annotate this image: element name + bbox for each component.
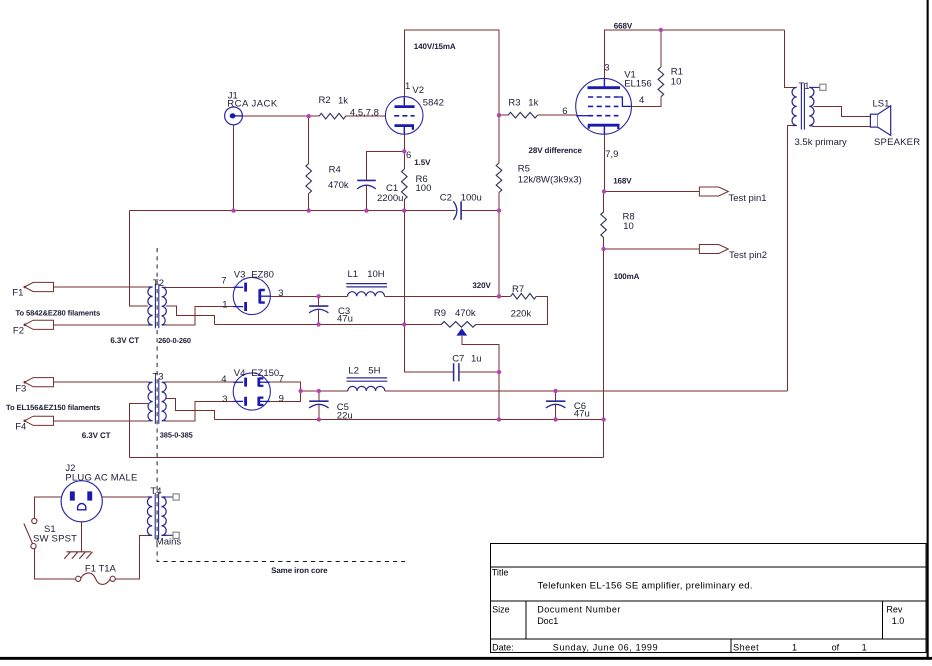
wire R7 leads and right drop xyxy=(476,296,548,324)
node R9 left xyxy=(402,322,406,326)
connector J2 plug AC male xyxy=(61,481,102,522)
wire F3 to T3 xyxy=(54,381,149,383)
wire C1 bottom lead xyxy=(366,185,368,211)
svg-text:To EL156&EZ150 filaments: To EL156&EZ150 filaments xyxy=(6,403,100,412)
svg-text:EZ150: EZ150 xyxy=(251,368,279,379)
svg-text:F1: F1 xyxy=(12,288,23,299)
transformer T3 primary 6.3V CT winding xyxy=(148,382,153,421)
svg-text:4,5,7,8: 4,5,7,8 xyxy=(350,108,379,119)
transformer T1 output primary winding xyxy=(792,87,797,125)
svg-text:385-0-385: 385-0-385 xyxy=(160,430,193,439)
wire J2 right to T4 primary top xyxy=(102,496,148,498)
tube V1 EL156 pentode xyxy=(576,78,632,134)
wire audio ground rail y=324.4 xyxy=(215,323,405,325)
node bus C1 xyxy=(364,208,368,212)
node R5/R7/L1 xyxy=(497,294,501,298)
wire F1 to T2 xyxy=(54,286,149,288)
svg-text:1k: 1k xyxy=(528,98,538,109)
wire T3 left CT to lower left vertical xyxy=(130,403,148,457)
svg-text:4: 4 xyxy=(639,95,644,106)
connector Test pin2 xyxy=(699,245,728,254)
wire C7 right lead to junction xyxy=(459,371,499,373)
svg-text:10: 10 xyxy=(623,221,634,232)
wire left vertical bus to T2 CT xyxy=(130,211,148,306)
page border bottom xyxy=(0,657,932,660)
resistor R2 1k xyxy=(319,113,346,119)
wire R6 leads xyxy=(403,151,405,210)
wire 668V rail xyxy=(605,30,785,78)
transformer T3 core xyxy=(155,379,158,424)
TRANSFORMERS xyxy=(147,83,820,539)
JUNCTION-DOTS xyxy=(231,28,663,422)
resistor R4 470k xyxy=(306,164,312,194)
wire T1 secondary tap to speaker top xyxy=(814,107,871,117)
node bus R6 xyxy=(402,208,406,212)
svg-text:9: 9 xyxy=(279,393,284,404)
svg-text:1: 1 xyxy=(405,81,410,92)
svg-text:1.0: 1.0 xyxy=(892,616,905,626)
node R3/R5/140V xyxy=(497,113,501,117)
svg-text:L1: L1 xyxy=(348,269,359,280)
wire F4 to T3 xyxy=(54,420,149,422)
capacitor C1 2200u xyxy=(357,180,376,189)
node C5 top xyxy=(317,389,321,393)
tube V4 EZ150 rectifier xyxy=(233,373,270,410)
svg-text:Mains: Mains xyxy=(156,536,182,547)
svg-text:320V: 320V xyxy=(472,281,491,290)
wire R3 leads xyxy=(499,114,576,116)
svg-text:F1 T1A: F1 T1A xyxy=(85,563,117,574)
wire S1 to fuse xyxy=(34,549,75,579)
svg-text:LS1: LS1 xyxy=(873,99,890,110)
svg-text:1: 1 xyxy=(792,643,797,653)
svg-text:Sunday, June 06, 1999: Sunday, June 06, 1999 xyxy=(553,643,659,653)
svg-text:Size: Size xyxy=(492,604,510,614)
node V4 rectifier output xyxy=(299,389,303,393)
resistor R1 10 xyxy=(658,67,664,97)
connector F1 xyxy=(24,282,54,291)
transformer T4 core xyxy=(155,493,158,539)
svg-text:470k: 470k xyxy=(328,180,349,191)
wire ground bus y=210.6 xyxy=(130,210,499,212)
connector F2 xyxy=(24,320,54,329)
svg-text:7,9: 7,9 xyxy=(605,149,618,160)
svg-text:7: 7 xyxy=(279,374,284,385)
node J1/R2/R4 xyxy=(307,114,311,118)
svg-text:Doc1: Doc1 xyxy=(537,616,558,626)
wire R4 leads xyxy=(308,116,310,210)
node 668V/R1 xyxy=(659,28,663,32)
svg-text:R2: R2 xyxy=(319,95,331,106)
transformer T4 secondary stubs xyxy=(165,497,173,535)
wire R6 bus to R9 node vertical xyxy=(403,211,405,325)
svg-text:R5: R5 xyxy=(518,164,530,175)
RESISTORS (navy zigzags) xyxy=(306,67,664,327)
transformer T3 secondary 385-0-385 winding xyxy=(162,382,167,421)
fuse F1 xyxy=(76,573,116,585)
svg-text:T4: T4 xyxy=(150,486,161,497)
svg-text:22u: 22u xyxy=(337,411,353,422)
svg-text:F4: F4 xyxy=(15,422,26,433)
svg-text:T3: T3 xyxy=(153,371,164,382)
transformer T4 mains primary winding xyxy=(147,497,152,535)
wire B+ rail y=391 xyxy=(301,390,788,392)
svg-text:100u: 100u xyxy=(461,193,482,204)
node C7 line bottom xyxy=(497,417,501,421)
svg-text:1.5V: 1.5V xyxy=(414,158,431,167)
inductor L2 5H xyxy=(347,378,388,391)
transformer T2 core xyxy=(155,284,158,329)
wire F2 to T2 xyxy=(54,324,149,326)
svg-text:10: 10 xyxy=(671,77,682,88)
svg-text:T2: T2 xyxy=(153,278,164,289)
wire T1 primary bottom down to 391 rail xyxy=(787,126,796,392)
node bus J1 xyxy=(231,208,235,212)
iron core dashed link xyxy=(157,248,405,562)
node C7 right xyxy=(497,370,501,374)
svg-text:F3: F3 xyxy=(15,384,26,395)
node test pin2 xyxy=(601,247,605,251)
wire J2 left to S1 xyxy=(34,497,61,519)
wire J1 down to ground bus xyxy=(233,125,235,211)
LABELS mono bitmap-font annotations xyxy=(6,21,640,575)
resistor R8 10 xyxy=(601,212,607,238)
resistor R5 12k/8W xyxy=(496,163,502,193)
svg-text:R4: R4 xyxy=(329,164,341,175)
svg-text:140V/15mA: 140V/15mA xyxy=(414,42,456,51)
capacitor C7 1u xyxy=(454,363,459,381)
svg-text:R9: R9 xyxy=(434,308,446,319)
unconnected pin square T4 bottom xyxy=(173,532,179,538)
svg-text:Title: Title xyxy=(492,568,509,578)
svg-text:C7: C7 xyxy=(452,354,464,365)
wire heater return rail y=457.4 xyxy=(130,456,604,458)
svg-text:47u: 47u xyxy=(574,409,590,420)
capacitor C5 22u xyxy=(309,401,328,408)
transformer T1 core xyxy=(801,83,804,129)
wire R1 bottom to V1 pin4 xyxy=(632,97,661,107)
inductor L1 10H xyxy=(346,284,387,297)
wire R1 top lead xyxy=(660,30,662,67)
svg-text:C2: C2 xyxy=(440,193,452,204)
transformer T4 secondary winding xyxy=(161,497,166,535)
wire R2 to V2 grid xyxy=(346,115,386,117)
node bus R4 xyxy=(307,208,311,212)
svg-text:Test pin1: Test pin1 xyxy=(729,193,767,204)
svg-text:100mA: 100mA xyxy=(614,272,640,281)
CAPACITORS (navy) xyxy=(309,180,565,408)
node C3 bottom xyxy=(316,322,320,326)
switch S1 SW SPST xyxy=(24,518,37,548)
capacitor C2 100u xyxy=(453,201,461,219)
transformer T2 secondary 260-0-260 winding xyxy=(162,287,167,325)
wire fuse to T4 primary xyxy=(115,535,147,579)
connector Test pin1 xyxy=(699,187,728,196)
svg-text:Document Number: Document Number xyxy=(537,604,621,614)
page border right xyxy=(927,0,929,659)
wire C6 leads xyxy=(555,391,557,420)
wire test pin2 branch xyxy=(604,248,700,250)
tube V3 EZ80 rectifier xyxy=(233,277,270,314)
node V2 cathode pin6 xyxy=(402,149,406,153)
wire V4 pins 7-9 join xyxy=(270,382,300,401)
svg-text:PLUG AC MALE: PLUG AC MALE xyxy=(65,473,137,484)
svg-text:5842: 5842 xyxy=(423,98,444,109)
svg-text:5H: 5H xyxy=(368,366,380,377)
svg-text:L2: L2 xyxy=(348,366,359,377)
svg-text:F2: F2 xyxy=(13,326,24,337)
wire T2 sec top to V3 pin7 xyxy=(166,286,233,288)
wire T3 sec top to V4 pin4 xyxy=(166,381,233,383)
LABELS sans xyxy=(12,62,920,574)
node C3 top xyxy=(316,294,320,298)
svg-text:100: 100 xyxy=(416,183,432,194)
svg-text:1: 1 xyxy=(862,643,867,653)
svg-text:V2: V2 xyxy=(412,85,424,96)
wire 140V box around V2 plate xyxy=(404,30,499,115)
wire T3 sec bottom to V4 pin3 xyxy=(166,401,234,420)
svg-text:1: 1 xyxy=(222,300,227,311)
node rail end R8 line xyxy=(601,417,605,421)
connector F3 xyxy=(24,378,54,387)
svg-text:EZ80: EZ80 xyxy=(251,269,274,280)
resistor R9 470k potentiometer track xyxy=(441,322,476,328)
svg-text:10H: 10H xyxy=(367,269,385,280)
transformer T1 secondary winding xyxy=(809,87,814,126)
wire C5 leads xyxy=(318,391,320,420)
svg-text:RCA JACK: RCA JACK xyxy=(227,99,278,110)
unconnected pin square T1 xyxy=(820,84,826,90)
svg-text:168V: 168V xyxy=(613,176,632,185)
node C6 bottom xyxy=(553,417,557,421)
svg-text:1u: 1u xyxy=(471,354,482,365)
svg-text:EL156: EL156 xyxy=(624,79,651,90)
connector F4 xyxy=(24,416,54,425)
wire C7 node down to HV ground rail xyxy=(498,372,500,419)
svg-text:Telefunken EL-156 SE amplifier: Telefunken EL-156 SE amplifier, prelimin… xyxy=(538,580,753,591)
svg-text:V4: V4 xyxy=(234,368,246,379)
wire R9 node down and C7 left lead xyxy=(404,324,453,372)
potentiometer R9 wiper arrow xyxy=(456,328,467,335)
wire J2 ground lead xyxy=(81,522,83,552)
svg-text:3: 3 xyxy=(222,394,227,405)
wire R8 leads xyxy=(603,192,605,250)
svg-text:Test pin2: Test pin2 xyxy=(729,250,767,261)
wire T2 right CT jog xyxy=(166,306,215,324)
resistor R3 1k xyxy=(508,112,538,118)
svg-text:3: 3 xyxy=(604,62,609,73)
svg-text:SPEAKER: SPEAKER xyxy=(874,137,920,148)
svg-text:4: 4 xyxy=(221,374,226,385)
svg-text:T1: T1 xyxy=(799,81,810,92)
ground (chassis) symbol xyxy=(64,552,92,559)
wire HV ground rail y=419.5 xyxy=(214,419,603,421)
svg-text:220k: 220k xyxy=(511,308,532,319)
resistor R7 220k xyxy=(511,294,537,300)
wire C3 leads xyxy=(318,296,320,324)
transformer T2 primary 6.3V CT winding xyxy=(148,287,153,325)
TITLE BLOCK text xyxy=(492,568,905,653)
wire test pin1 branch xyxy=(604,191,699,193)
wire R8 node down to rails xyxy=(603,249,605,457)
wire T1 secondary bottom to speaker bottom xyxy=(814,126,871,128)
svg-text:SW SPST: SW SPST xyxy=(33,534,77,545)
node bus C2/R5 xyxy=(497,208,501,212)
wire T1 primary top xyxy=(784,30,796,87)
svg-text:Same iron core: Same iron core xyxy=(271,566,328,575)
svg-text:R3: R3 xyxy=(508,98,520,109)
wire R9 left lead xyxy=(404,323,441,325)
svg-text:V3: V3 xyxy=(234,269,246,280)
wire V3 pin3 to L1 (320V line) xyxy=(270,295,500,297)
INDUCTORS xyxy=(346,284,387,391)
svg-text:12k/8W(3k9x3): 12k/8W(3k9x3) xyxy=(518,175,582,186)
svg-text:6.3V CT: 6.3V CT xyxy=(110,336,139,345)
svg-text:6.3V CT: 6.3V CT xyxy=(82,431,111,440)
node test pin1 xyxy=(602,189,606,193)
svg-text:1k: 1k xyxy=(338,96,348,107)
node C6 top xyxy=(553,389,557,393)
unconnected pin square T4 top xyxy=(173,494,179,500)
svg-text:3.5k primary: 3.5k primary xyxy=(795,137,848,148)
wire T3 right CT jog xyxy=(166,399,214,420)
wire R5 leads xyxy=(498,115,500,210)
svg-text:470k: 470k xyxy=(455,308,476,319)
transformer T1 secondary top stub xyxy=(809,86,820,88)
svg-text:28V difference: 28V difference xyxy=(529,146,583,155)
speaker LS1 xyxy=(870,106,890,136)
svg-text:6: 6 xyxy=(406,150,411,161)
svg-text:260-0-260: 260-0-260 xyxy=(158,336,191,345)
tube V2 5842 triode xyxy=(385,97,423,135)
wire R9 wiper to C7 node xyxy=(462,336,499,372)
svg-text:R7: R7 xyxy=(512,284,524,295)
svg-text:2200u: 2200u xyxy=(377,193,403,204)
wire T2 sec bottom to V3 pin1 xyxy=(166,307,234,325)
svg-text:6: 6 xyxy=(562,106,567,117)
wire V4 node to rail xyxy=(300,382,302,401)
wire V1 cathode down to test rail xyxy=(603,134,605,191)
wire R5 bottom to R7 node xyxy=(498,211,500,297)
svg-text:Sheet: Sheet xyxy=(733,643,759,653)
wire V2 cathode node to C1 xyxy=(367,134,405,180)
svg-text:Date:: Date: xyxy=(492,643,514,653)
TITLE BLOCK xyxy=(491,543,927,652)
svg-text:668V: 668V xyxy=(614,21,633,30)
capacitor C3 47u xyxy=(309,306,328,313)
svg-text:To 5842&EZ80 filaments: To 5842&EZ80 filaments xyxy=(16,309,101,318)
svg-text:47u: 47u xyxy=(337,313,353,324)
capacitor C6 47u xyxy=(546,401,565,408)
WIRES-MAROON xyxy=(34,30,870,579)
svg-text:Rev: Rev xyxy=(886,604,903,614)
connector J1 RCA jack xyxy=(225,107,243,125)
svg-text:of: of xyxy=(832,643,840,653)
wire J1 to R2 junction xyxy=(243,115,320,117)
resistor R6 100 xyxy=(402,169,408,200)
svg-text:3: 3 xyxy=(278,288,283,299)
svg-text:7: 7 xyxy=(221,276,226,287)
node C5 bottom xyxy=(317,417,321,421)
